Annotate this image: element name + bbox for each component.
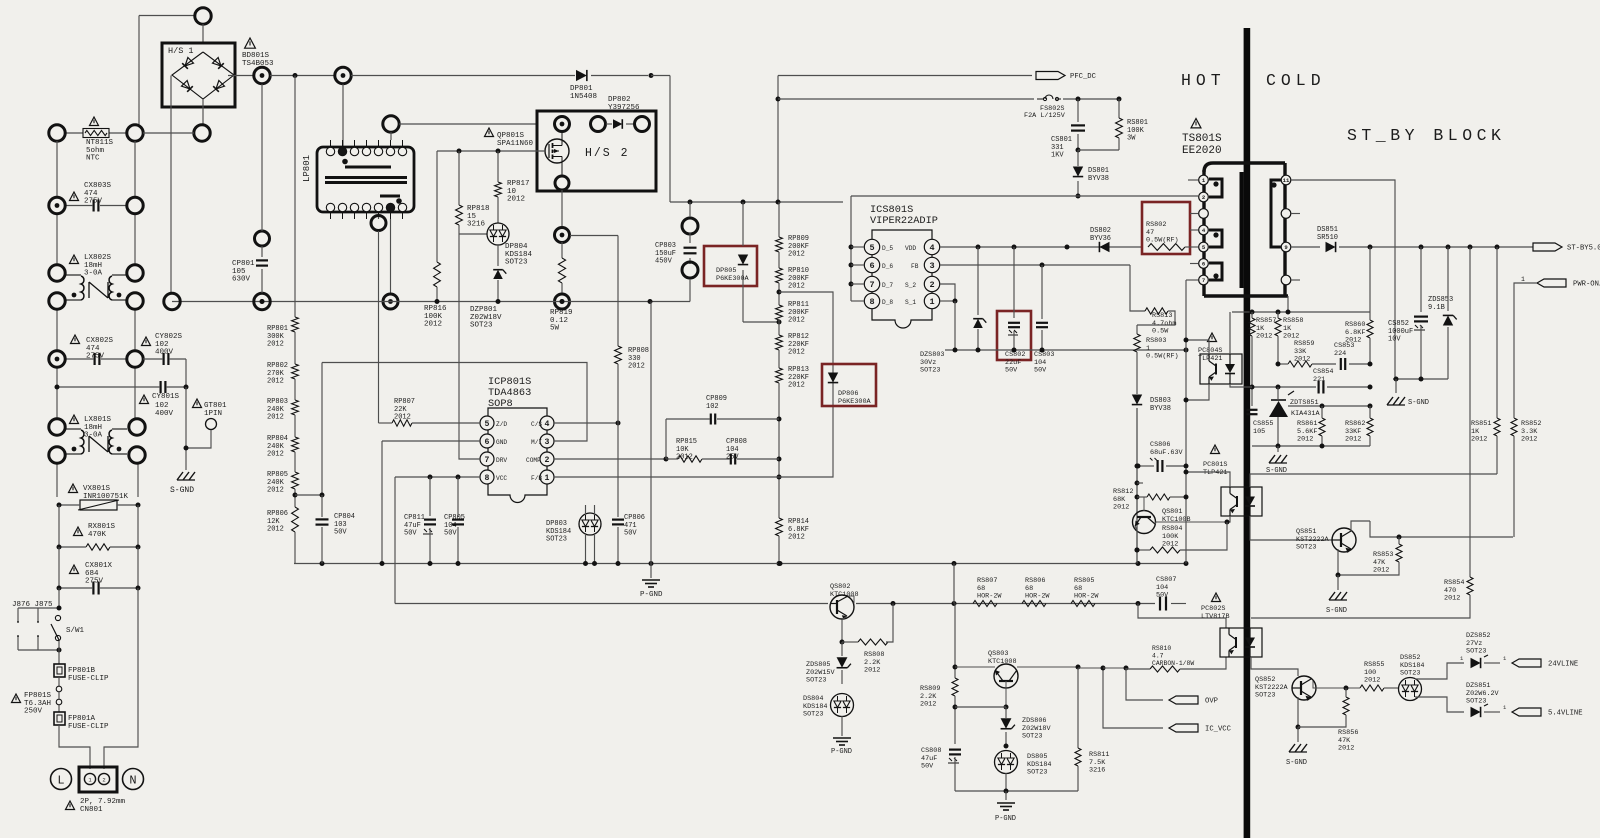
- svg-text:DRV: DRV: [496, 457, 507, 464]
- mosfet QP801S: [485, 128, 494, 137]
- ground S-GND feedback: [1277, 446, 1279, 452]
- switch S/W1: [55, 615, 60, 620]
- svg-text:GND: GND: [496, 439, 507, 446]
- svg-text:M/I: M/I: [531, 439, 542, 446]
- pin 9: [1281, 242, 1291, 252]
- wire bridge plus output: [228, 75, 254, 77]
- diode DP805 protection: [704, 246, 757, 286]
- wire source rail: [945, 349, 1186, 351]
- svg-text:TS801SEE2020: TS801SEE2020: [1182, 133, 1222, 157]
- wire fb top rail: [1232, 311, 1370, 313]
- ground S-GND left: [177, 472, 183, 480]
- svg-text:DS801BYV38: DS801BYV38: [1088, 167, 1109, 183]
- svg-text:6: 6: [485, 438, 490, 447]
- wire pin1 fb: [554, 476, 779, 478]
- wire pfc return to pgnd: [650, 302, 652, 564]
- resistor RP814: [778, 489, 780, 518]
- wire fb net: [940, 264, 1130, 266]
- wire left col low verticals: [58, 505, 60, 547]
- wire vdd net: [940, 246, 1142, 248]
- wire hot gnd to PC802: [1138, 604, 1226, 619]
- warning BD801S: [245, 38, 256, 48]
- wire QS851 emitter: [1337, 549, 1339, 575]
- resistor RP811: [778, 283, 780, 305]
- wire pin1 stub: [1188, 179, 1198, 181]
- connector row2 circles: [49, 197, 65, 213]
- flag OVP: [1169, 696, 1198, 704]
- svg-text:DS802BYV36: DS802BYV36: [1090, 227, 1111, 243]
- wire comp drive node: [617, 423, 619, 505]
- node HS2 inner circles: [591, 117, 606, 132]
- wire ref row: [1288, 405, 1370, 407]
- capacitor CP801: [255, 231, 270, 246]
- pin 4 VDD: [924, 239, 939, 254]
- connector bridge AC1: [194, 125, 210, 141]
- pin blank c: [1281, 275, 1291, 285]
- resistor RP818: [456, 205, 463, 225]
- svg-text:4: 4: [545, 420, 550, 429]
- svg-text:1: 1: [545, 474, 550, 483]
- capacitor CX803S: [70, 192, 79, 201]
- wire left col verticals: [56, 141, 58, 197]
- connector CN801: [79, 767, 117, 792]
- winding secondary 11-9: [1271, 180, 1286, 247]
- wire rail connects: [953, 564, 955, 604]
- node below LP801: [378, 216, 380, 219]
- svg-text:ST-BY5.0V: ST-BY5.0V: [1567, 245, 1600, 253]
- wire source pins: [940, 284, 955, 301]
- connector row1 left: [49, 125, 65, 141]
- wire PC801 connections: [1186, 472, 1230, 487]
- wire pin3 multiplier ref: [322, 363, 587, 442]
- wire QS803 emitter: [955, 666, 995, 668]
- pin blank a: [1199, 209, 1209, 219]
- svg-text:S-GND: S-GND: [1326, 607, 1347, 615]
- svg-text:S-GND: S-GND: [170, 486, 194, 495]
- gate drive wire: [437, 150, 545, 152]
- connector CY row left: [164, 293, 180, 309]
- pin 5: [1199, 242, 1209, 252]
- ground P-GND main: [650, 564, 652, 579]
- fuse clip FP801A: [54, 712, 65, 725]
- pin 7: [1199, 275, 1209, 285]
- capacitor CS802: [997, 311, 1031, 360]
- wire QS852 collector: [1313, 681, 1360, 688]
- pin 3 M/I: [540, 434, 554, 448]
- wire ic_vcc rs810: [1103, 667, 1126, 669]
- wire to 24VLINE: [1415, 663, 1464, 679]
- resistor RP802: [294, 332, 296, 364]
- flag ST-BY5.0V: [1533, 243, 1562, 251]
- pin 11: [1281, 175, 1291, 185]
- svg-text:4: 4: [929, 243, 934, 253]
- wire vdd supply to pin2: [851, 195, 1198, 197]
- ground P-GND QS803: [1005, 791, 1007, 800]
- svg-text:CY801S: CY801S: [152, 393, 180, 401]
- wire row1: [143, 132, 194, 134]
- wire pin blank a stub: [1190, 213, 1198, 215]
- svg-text:PWR-ON/OFF: PWR-ON/OFF: [1573, 281, 1600, 289]
- pin 6 D: [864, 257, 879, 272]
- wire pin4 to column: [554, 422, 618, 424]
- svg-text:8: 8: [485, 474, 490, 483]
- svg-text:7: 7: [869, 280, 874, 290]
- svg-text:S_2: S_2: [905, 282, 916, 289]
- pin 4: [1199, 225, 1209, 235]
- resistor RP819: [561, 242, 563, 258]
- wire sgnd row: [1393, 378, 1448, 380]
- node below HS2: [561, 190, 563, 228]
- pin 7 D: [864, 276, 879, 291]
- resistor RP817: [495, 182, 502, 197]
- svg-text:1: 1: [1521, 276, 1525, 283]
- terminal N: [123, 769, 144, 790]
- connector ZCD return: [390, 219, 392, 294]
- pin 5 D: [864, 239, 879, 254]
- wire pin7 branch: [1186, 279, 1198, 281]
- pin 1 S: [924, 293, 939, 308]
- svg-text:P-GND: P-GND: [640, 591, 663, 599]
- svg-text:D_5: D_5: [882, 245, 893, 252]
- wire pin6 stub: [1190, 263, 1198, 265]
- svg-text:L: L: [57, 774, 64, 788]
- capacitor CY802S: [142, 337, 151, 346]
- svg-text:S-GND: S-GND: [1408, 399, 1429, 407]
- svg-text:2: 2: [545, 456, 550, 465]
- flag 24VLINE: [1512, 659, 1541, 667]
- svg-text:P-GND: P-GND: [995, 815, 1016, 823]
- svg-text:PC801STLP421: PC801STLP421: [1203, 461, 1227, 477]
- pin 8 D: [864, 293, 879, 308]
- wire bridge bottom to connector: [202, 99, 204, 125]
- pin 2 COMP: [540, 452, 554, 466]
- wire pin2 comp: [554, 458, 666, 460]
- connector row1 mid: [127, 125, 143, 141]
- wire pin blank b stub: [1291, 213, 1300, 215]
- svg-text:1: 1: [929, 297, 934, 307]
- svg-text:5.4VLINE: 5.4VLINE: [1548, 710, 1583, 718]
- wire st-by feedback link: [1280, 473, 1497, 475]
- svg-text:OVP: OVP: [1205, 698, 1218, 706]
- wire pin7 drv: [459, 234, 480, 459]
- svg-text:PC802SLTV817B: PC802SLTV817B: [1201, 605, 1230, 621]
- svg-text:S-GND: S-GND: [1286, 759, 1307, 767]
- node right of LP801: [383, 116, 399, 132]
- node LP801 top: [335, 67, 351, 83]
- node HS2 right circle: [635, 117, 650, 132]
- svg-text:H/S 2: H/S 2: [585, 147, 630, 160]
- wire node to bridge: [202, 24, 204, 43]
- svg-text:KIA431A: KIA431A: [1291, 410, 1320, 418]
- svg-text:3: 3: [929, 261, 934, 271]
- ground S-GND standby: [1395, 379, 1397, 393]
- svg-text:LP801: LP801: [302, 155, 312, 182]
- svg-text:Z/D: Z/D: [496, 421, 507, 428]
- svg-text:VCC: VCC: [496, 475, 507, 482]
- node bridge output: [254, 67, 270, 83]
- fuse clip FP801B: [54, 664, 65, 677]
- optocoupler PC802S: [1212, 593, 1221, 602]
- fuse FS802S: [778, 98, 1034, 100]
- connector node top: [195, 8, 211, 24]
- ground S-GND QS852: [1289, 744, 1295, 752]
- resistor RX801S: [74, 527, 83, 536]
- svg-text:DS803BYV38: DS803BYV38: [1150, 397, 1171, 413]
- svg-text:COMP: COMP: [526, 457, 541, 464]
- svg-text:7: 7: [485, 456, 490, 465]
- resistor RP810: [778, 252, 780, 268]
- winding primary 6-7: [1209, 263, 1222, 280]
- choke LX802S: [70, 255, 79, 264]
- resistor RP804: [294, 415, 296, 437]
- pin 2 S: [924, 276, 939, 291]
- wire top-left L feed: [139, 15, 195, 17]
- pin 7 DRV: [480, 452, 494, 466]
- resistor RP806 column bottom: [294, 489, 296, 507]
- wire QS803 base: [1005, 681, 1007, 707]
- capacitor CP803: [682, 218, 698, 234]
- bridge rectifier BD801S diamond: [172, 52, 234, 99]
- flag PFC_DC: [778, 75, 1032, 77]
- wire QS801 collector: [1155, 522, 1227, 524]
- ground pin GT801: [193, 399, 202, 408]
- varistor VX801S: [69, 484, 78, 493]
- svg-text:F2A L/125V: F2A L/125V: [1024, 112, 1066, 120]
- wire pgnd rail bottom: [955, 790, 1078, 792]
- svg-text:D_6: D_6: [882, 263, 893, 270]
- wire QS852 emitter: [1297, 697, 1299, 727]
- svg-text:IC_VCC: IC_VCC: [1205, 726, 1232, 734]
- svg-text:2: 2: [929, 280, 934, 290]
- winding primary 1-2: [1209, 179, 1222, 197]
- flag 5.4VLINE: [1512, 708, 1541, 716]
- wire to LP801 node: [270, 75, 335, 77]
- svg-text:D_8: D_8: [882, 299, 893, 306]
- H/S 2 heatsink box: [537, 111, 656, 191]
- svg-text:8: 8: [869, 297, 874, 307]
- wire pin11 net: [1291, 180, 1395, 379]
- svg-text:24VLINE: 24VLINE: [1548, 661, 1578, 669]
- divider HOT-COLD line: [1244, 28, 1251, 838]
- ground P-GND QS802: [833, 737, 851, 739]
- svg-text:3: 3: [545, 438, 550, 447]
- svg-text:D_7: D_7: [882, 282, 893, 289]
- svg-text:PFC_DC: PFC_DC: [1070, 73, 1097, 81]
- wire node down to LP801: [342, 84, 344, 147]
- resistor RP803: [294, 379, 296, 400]
- svg-text:S_1: S_1: [905, 299, 916, 306]
- wire xfmr bottom tap: [1287, 296, 1289, 312]
- zener DZP801: [497, 245, 499, 266]
- wire pin8 vcc rail: [395, 476, 480, 478]
- svg-text:HOT: HOT: [1181, 71, 1226, 90]
- wire PFC return rail: [172, 301, 690, 303]
- optocoupler PC801S: [1211, 445, 1220, 454]
- resistor RP812: [778, 320, 780, 335]
- svg-text:COLD: COLD: [1266, 71, 1326, 90]
- svg-text:6: 6: [869, 261, 874, 271]
- wire LP801 to HS2: [399, 123, 537, 125]
- svg-text:VDD: VDD: [905, 245, 916, 252]
- svg-text:ST_BY BLOCK: ST_BY BLOCK: [1347, 126, 1505, 145]
- svg-text:11: 11: [1283, 177, 1290, 184]
- wire vcc gnd frame: [394, 477, 396, 604]
- transformer core bar: [1240, 172, 1244, 288]
- pin 5 Z/D: [480, 416, 494, 430]
- diode DP801: [351, 75, 575, 77]
- wire pin blank c stub: [1291, 279, 1300, 281]
- wire PCS804 connections: [1186, 340, 1209, 354]
- svg-text:S/W1: S/W1: [66, 627, 85, 635]
- svg-text:P-GND: P-GND: [831, 748, 852, 756]
- wire RP801 feed vertical: [294, 76, 296, 318]
- H/S 1 heatsink box: [162, 43, 235, 107]
- pin 6: [1199, 259, 1209, 269]
- flag IC_VCC: [1169, 724, 1198, 732]
- pin 8 VCC: [480, 470, 494, 484]
- ground S-GND QS851: [1329, 592, 1335, 600]
- wire ovp branch: [1078, 667, 1103, 669]
- diode DP804: [459, 233, 487, 235]
- wire PC802 led bottom: [1251, 657, 1298, 676]
- svg-text:H/S 1: H/S 1: [168, 46, 194, 56]
- fuse FP801S: [12, 694, 21, 703]
- terminal L: [51, 769, 72, 790]
- wire QS803 collector: [1017, 666, 1078, 668]
- pin 4 C/S: [540, 416, 554, 430]
- svg-text:C/S: C/S: [531, 421, 542, 428]
- capacitor CX801X: [70, 565, 79, 574]
- wire PFC bus: [649, 73, 654, 78]
- svg-text:2: 2: [102, 777, 105, 784]
- wire rail 202: [670, 201, 843, 203]
- thermistor NT811S: [65, 132, 83, 134]
- wire rail P-GND main: [294, 563, 1186, 565]
- svg-text:7: 7: [1202, 277, 1205, 284]
- svg-text:DS851SR510: DS851SR510: [1317, 226, 1338, 242]
- wire QS851 collector: [1351, 521, 1370, 531]
- pin blank b: [1281, 209, 1291, 219]
- capacitor CX802S: [71, 335, 80, 344]
- choke LX801S: [70, 415, 79, 424]
- resistor RP813: [778, 350, 780, 368]
- pin 1 F/B: [540, 470, 554, 484]
- node CP801 bottom: [254, 293, 270, 309]
- diode DP806 protection: [822, 364, 876, 406]
- resistor RP801: [292, 317, 299, 332]
- wire fb bottom rail: [1252, 445, 1370, 447]
- wire drain bus: [850, 196, 852, 301]
- wire FB sense right branch: [779, 292, 833, 477]
- transformer TS801S: [1191, 119, 1201, 128]
- node HS2 source circle: [555, 176, 569, 190]
- svg-text:5: 5: [485, 420, 490, 429]
- wire QS801 base feed: [1143, 497, 1145, 511]
- wire bridge AC2 down: [170, 76, 172, 295]
- svg-text:F/B: F/B: [531, 475, 542, 482]
- winding primary 4-5: [1209, 230, 1222, 247]
- wire vcc verticals: [1136, 408, 1138, 564]
- wire pin6 gnd: [382, 440, 480, 442]
- resistor chain RP809: [778, 202, 780, 237]
- svg-text:FB: FB: [911, 263, 919, 270]
- resistor RS802: [1142, 202, 1190, 254]
- pin 1: [1199, 175, 1209, 185]
- svg-text:PC804STLP421: PC804STLP421: [1198, 347, 1222, 363]
- svg-text:N: N: [129, 774, 136, 788]
- pin 6 GND: [480, 434, 494, 448]
- wire aux net down: [1185, 280, 1187, 564]
- wire rail lower: [395, 603, 828, 605]
- wire pin4 stub: [1190, 229, 1198, 231]
- svg-text:5: 5: [869, 243, 874, 253]
- resistor RP805: [294, 452, 296, 472]
- wire to 5.4VLINE: [1415, 697, 1464, 712]
- node HS2 drain: [555, 117, 570, 132]
- label CN801: [66, 801, 75, 810]
- optocoupler PCS804S: [1208, 333, 1217, 342]
- resistor RP816: [434, 262, 441, 287]
- pin 2: [1199, 192, 1209, 202]
- pin 3 FB: [924, 257, 939, 272]
- capacitor CY801S: [160, 381, 162, 393]
- wire to CN801: [59, 725, 90, 769]
